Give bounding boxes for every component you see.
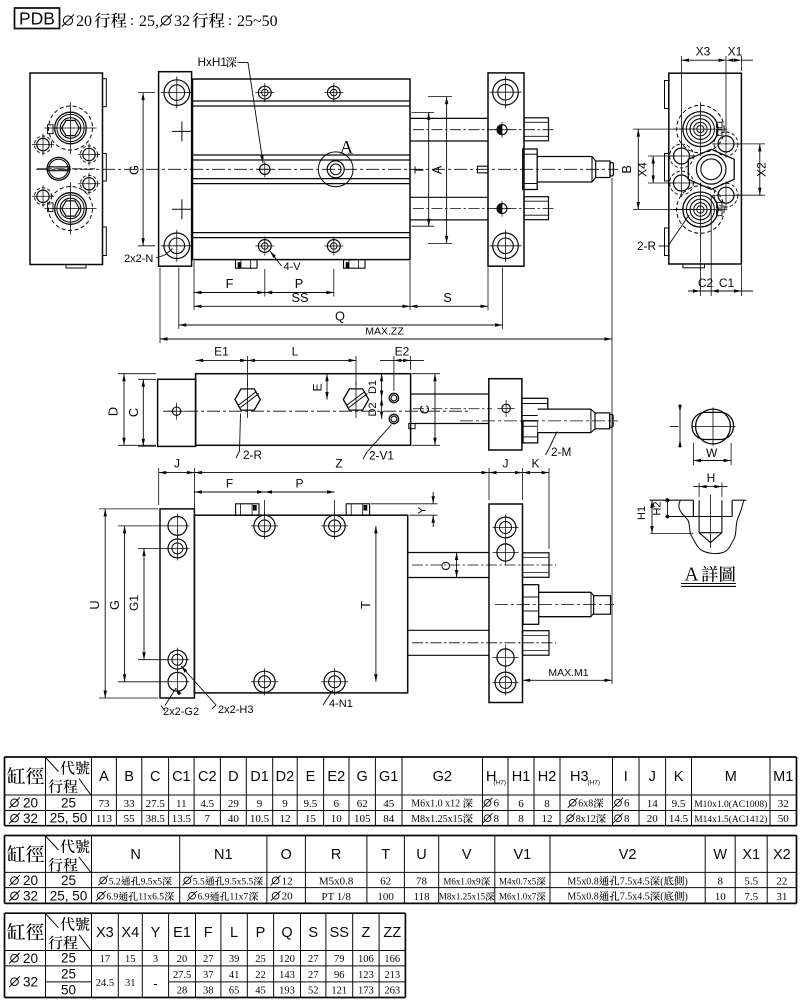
svg-text:4-N1: 4-N1 xyxy=(329,698,353,710)
svg-text:Y: Y xyxy=(151,925,161,941)
svg-text:73: 73 xyxy=(98,798,110,810)
top view rod axis xyxy=(460,420,618,422)
svg-text:HxH1: HxH1 xyxy=(198,55,228,69)
dimension X2 xyxy=(735,143,765,145)
right end view body xyxy=(669,73,742,264)
svg-text:H2: H2 xyxy=(652,501,664,515)
right end view bottom port 2-R xyxy=(683,192,718,227)
right end view top port 2-R xyxy=(683,112,718,147)
dimension MAX.ZZ xyxy=(160,338,612,340)
svg-text:39: 39 xyxy=(229,954,240,965)
svg-text:9.5: 9.5 xyxy=(672,798,686,810)
bottom view rod nut xyxy=(523,585,539,625)
svg-text:C1: C1 xyxy=(719,276,735,290)
svg-text:G: G xyxy=(127,165,142,175)
svg-text:M5x0.8: M5x0.8 xyxy=(567,892,598,903)
svg-text:6: 6 xyxy=(518,798,524,810)
left end view small ports xyxy=(37,138,49,150)
svg-text:213: 213 xyxy=(384,970,400,981)
svg-text:32: 32 xyxy=(174,13,190,30)
svg-text:L: L xyxy=(230,925,238,941)
svg-text:62: 62 xyxy=(380,876,391,888)
svg-text:38.5: 38.5 xyxy=(146,813,166,825)
svg-text:100: 100 xyxy=(377,891,394,903)
dimension B xyxy=(633,128,697,130)
svg-text:H2: H2 xyxy=(538,769,557,785)
svg-text:5.5: 5.5 xyxy=(744,876,758,888)
svg-text:9: 9 xyxy=(257,798,263,810)
svg-text:32: 32 xyxy=(23,889,38,904)
svg-text:31: 31 xyxy=(125,978,136,989)
svg-text:22: 22 xyxy=(776,876,787,888)
bottom view left plate holes xyxy=(168,517,187,536)
piston rod hex nut xyxy=(523,149,538,190)
svg-text:K: K xyxy=(674,769,684,785)
svg-text:13.5: 13.5 xyxy=(172,813,192,825)
svg-text:R: R xyxy=(331,847,341,863)
top view piston rod xyxy=(538,409,591,433)
bottom view rod axis xyxy=(495,604,614,606)
svg-text::: : xyxy=(228,13,232,29)
svg-text:G1: G1 xyxy=(379,769,398,785)
svg-text:123: 123 xyxy=(358,970,374,981)
dimension X3 X1 xyxy=(681,56,683,148)
svg-text:6: 6 xyxy=(334,798,340,810)
svg-text:29: 29 xyxy=(228,798,240,810)
main centerline xyxy=(36,168,618,170)
svg-text:V: V xyxy=(462,847,472,863)
svg-text:8: 8 xyxy=(494,813,500,825)
top view guide rod between body and plate xyxy=(411,393,489,395)
svg-text:12: 12 xyxy=(542,813,553,825)
svg-text:2-V1: 2-V1 xyxy=(369,449,394,463)
svg-text:X4: X4 xyxy=(636,162,650,177)
svg-text:T: T xyxy=(381,847,390,863)
A detail break lines xyxy=(679,500,744,553)
svg-text:8: 8 xyxy=(518,813,524,825)
svg-text:7.5x4.5: 7.5x4.5 xyxy=(620,876,650,887)
svg-text:D: D xyxy=(228,769,238,785)
svg-text:A: A xyxy=(99,769,109,785)
svg-text:PDB: PDB xyxy=(19,9,55,29)
dimension MAX.M1 xyxy=(523,679,612,681)
svg-text:Q: Q xyxy=(335,309,345,324)
svg-text:2-R: 2-R xyxy=(243,448,262,462)
bottom view left plate xyxy=(160,509,194,698)
svg-text:25~50: 25~50 xyxy=(237,13,278,30)
svg-text:166: 166 xyxy=(384,954,400,965)
dimension G front xyxy=(138,92,155,94)
rod tip xyxy=(610,163,613,177)
svg-text:X3: X3 xyxy=(696,45,711,59)
svg-text:45: 45 xyxy=(255,986,266,997)
svg-text:20: 20 xyxy=(282,891,294,903)
title stroke text xyxy=(63,16,72,25)
svg-text:C: C xyxy=(150,769,160,785)
svg-text:C2: C2 xyxy=(198,769,217,785)
dimension H1 xyxy=(650,533,693,535)
svg-text:9: 9 xyxy=(282,798,288,810)
A detail thread hole xyxy=(698,500,700,533)
svg-text:D1: D1 xyxy=(250,769,269,785)
left plate bottom bolt xyxy=(164,233,190,259)
svg-text:-: - xyxy=(153,976,157,991)
svg-text:G: G xyxy=(357,769,368,785)
svg-text:11: 11 xyxy=(176,798,187,810)
svg-text:M5x0.8: M5x0.8 xyxy=(319,876,354,888)
W detail height dim xyxy=(679,404,681,448)
extension lines below front view xyxy=(193,261,195,310)
right end view center hex nut xyxy=(688,149,734,189)
svg-text:F: F xyxy=(226,276,234,291)
svg-text:118: 118 xyxy=(414,891,431,903)
svg-text:2x2-G2: 2x2-G2 xyxy=(163,706,199,718)
svg-text:M8x1.25x15: M8x1.25x15 xyxy=(439,892,486,902)
PDB model label box xyxy=(15,8,60,29)
svg-text:G1: G1 xyxy=(127,595,141,611)
svg-text:U: U xyxy=(87,600,102,609)
svg-text:50: 50 xyxy=(778,813,790,825)
left end view center breather plug xyxy=(47,157,70,180)
svg-text:27: 27 xyxy=(308,970,319,981)
svg-text:193: 193 xyxy=(279,986,295,997)
svg-text:D1: D1 xyxy=(367,380,379,394)
dimension G bottom xyxy=(118,525,166,527)
bottom view body holes 4-N1 xyxy=(254,515,275,536)
svg-text:Z: Z xyxy=(335,457,342,471)
svg-text:M8x1.25x15: M8x1.25x15 xyxy=(411,814,462,825)
svg-text:14: 14 xyxy=(647,798,659,810)
svg-text:14.5: 14.5 xyxy=(669,813,689,825)
svg-text:20: 20 xyxy=(647,813,659,825)
svg-text:M: M xyxy=(725,769,737,785)
svg-text:31: 31 xyxy=(776,891,787,903)
front view cylinder body xyxy=(193,79,411,260)
svg-text:24.5: 24.5 xyxy=(96,978,114,989)
svg-text:Y: Y xyxy=(417,506,429,514)
right plate top bolt xyxy=(493,79,519,105)
rod neck thread xyxy=(596,161,610,178)
svg-text:17: 17 xyxy=(100,954,111,965)
svg-text:2-M: 2-M xyxy=(551,445,571,459)
svg-text:96: 96 xyxy=(334,970,345,981)
svg-text:78: 78 xyxy=(416,876,428,888)
svg-text:8: 8 xyxy=(624,813,630,825)
svg-text:7.5x4.5: 7.5x4.5 xyxy=(620,892,650,903)
svg-text:I: I xyxy=(624,769,628,785)
svg-text:M6x1.0 x12: M6x1.0 x12 xyxy=(411,799,460,810)
W detail rod flats section xyxy=(692,412,734,439)
cushion needle block xyxy=(477,166,488,173)
svg-text:M1: M1 xyxy=(773,769,793,785)
top view V1 ports xyxy=(389,393,398,402)
svg-text:A: A xyxy=(340,138,354,159)
svg-text:O: O xyxy=(439,561,453,570)
top view body xyxy=(196,374,411,446)
svg-text:PT 1/8: PT 1/8 xyxy=(321,891,351,903)
svg-text:C1: C1 xyxy=(172,769,191,785)
dimension C2 C1 xyxy=(699,233,701,296)
dimension E xyxy=(326,374,328,400)
svg-text:N1: N1 xyxy=(214,847,233,863)
svg-text:121: 121 xyxy=(331,986,347,997)
svg-text:E2: E2 xyxy=(327,769,345,785)
svg-text:G2: G2 xyxy=(433,769,452,785)
svg-text:MAX.ZZ: MAX.ZZ xyxy=(365,326,404,338)
svg-text:N: N xyxy=(130,847,140,863)
svg-text:25: 25 xyxy=(61,967,76,982)
svg-text:8: 8 xyxy=(544,798,550,810)
svg-text:X2: X2 xyxy=(773,847,791,863)
svg-text:20: 20 xyxy=(23,873,38,888)
svg-text:2x2-N: 2x2-N xyxy=(124,253,153,265)
left end view bottom hex socket plug xyxy=(55,193,87,225)
svg-text:10: 10 xyxy=(715,891,727,903)
svg-text:45: 45 xyxy=(383,798,395,810)
svg-text:P: P xyxy=(295,476,303,490)
svg-text:27.5: 27.5 xyxy=(173,970,191,981)
svg-text:6x8: 6x8 xyxy=(578,799,593,810)
bottom view guide rods xyxy=(408,552,489,554)
dimension Y xyxy=(371,503,438,505)
piston rod xyxy=(537,156,592,158)
svg-text:V1: V1 xyxy=(514,847,532,863)
dimension Q xyxy=(179,324,503,326)
body bottom screws xyxy=(258,240,271,253)
svg-text:E: E xyxy=(311,383,325,391)
dimension X4 xyxy=(648,155,676,157)
guide rod threaded stubs xyxy=(524,118,549,141)
svg-text:L: L xyxy=(292,344,299,358)
svg-text:J: J xyxy=(174,457,180,471)
svg-text:27: 27 xyxy=(308,954,319,965)
svg-text:ZZ: ZZ xyxy=(383,925,401,941)
dimension D1 D2 xyxy=(381,374,383,419)
svg-text:P: P xyxy=(256,925,266,941)
dimension E1 L E2 xyxy=(247,356,249,386)
HxH1 hole xyxy=(260,164,270,174)
A detail counterbore xyxy=(692,500,694,516)
svg-text:28: 28 xyxy=(177,986,188,997)
bottom view port bosses xyxy=(236,504,259,515)
svg-text:K: K xyxy=(531,457,539,471)
svg-text:25,: 25, xyxy=(139,13,159,30)
svg-text:SS: SS xyxy=(330,925,349,941)
svg-text:M6x1.0x7: M6x1.0x7 xyxy=(499,892,537,902)
svg-text:12: 12 xyxy=(279,813,290,825)
svg-text:65: 65 xyxy=(229,986,240,997)
A detail surface lines xyxy=(650,499,694,501)
left end view edge tabs xyxy=(103,79,107,107)
dimension H2 xyxy=(666,500,668,516)
svg-text:6: 6 xyxy=(624,798,630,810)
svg-text:11x7: 11x7 xyxy=(229,893,248,903)
svg-text:A: A xyxy=(430,165,445,174)
bottom port bosses front xyxy=(236,260,258,269)
svg-text:Q: Q xyxy=(281,925,292,941)
dimension W xyxy=(693,443,695,465)
svg-text:): ) xyxy=(685,892,688,903)
svg-text:Z: Z xyxy=(361,925,370,941)
svg-text:X1: X1 xyxy=(728,45,743,59)
left plate top bolt xyxy=(164,80,190,106)
svg-text:V2: V2 xyxy=(619,847,637,863)
TABLE 2 xyxy=(5,835,797,837)
svg-text:20: 20 xyxy=(23,796,38,811)
svg-text:4.5: 4.5 xyxy=(200,798,214,810)
top view rod lock nut xyxy=(523,421,538,443)
TABLE 1 xyxy=(5,756,797,758)
svg-text:E2: E2 xyxy=(395,344,410,358)
port A with detail circle xyxy=(327,161,344,178)
svg-text:143: 143 xyxy=(279,970,295,981)
svg-text:7.5: 7.5 xyxy=(744,891,758,903)
svg-text:15: 15 xyxy=(305,813,317,825)
svg-text:D: D xyxy=(106,407,121,416)
svg-text:32: 32 xyxy=(778,798,789,810)
svg-text:41: 41 xyxy=(229,970,240,981)
svg-text:20: 20 xyxy=(177,954,188,965)
svg-text:D2: D2 xyxy=(276,769,295,785)
svg-text:27: 27 xyxy=(203,954,214,965)
svg-text:M6x1.0x9: M6x1.0x9 xyxy=(443,876,481,886)
svg-text:32: 32 xyxy=(23,811,38,826)
svg-text:T: T xyxy=(412,166,427,174)
svg-text:W: W xyxy=(713,847,727,863)
svg-text:6.9: 6.9 xyxy=(198,893,210,903)
svg-text:120: 120 xyxy=(279,954,295,965)
svg-text:27.5: 27.5 xyxy=(146,798,166,810)
svg-text::: : xyxy=(130,13,134,29)
svg-text:25: 25 xyxy=(61,951,76,966)
svg-text:(H7): (H7) xyxy=(493,780,506,787)
svg-text:25: 25 xyxy=(61,873,76,888)
svg-text:20: 20 xyxy=(23,951,38,966)
top view right plate xyxy=(489,379,522,450)
svg-text:5.5: 5.5 xyxy=(193,877,205,887)
right end view edge tabs xyxy=(665,81,669,109)
guide rods between body and plate xyxy=(410,117,488,119)
svg-text:52: 52 xyxy=(308,986,319,997)
dimension C right xyxy=(412,373,440,375)
front view: left end cap side view xyxy=(30,73,103,265)
bottom view right plate xyxy=(489,504,523,703)
svg-text:C: C xyxy=(417,405,432,414)
top view hex plug 1 (2-R) xyxy=(235,389,260,410)
svg-text:4-V: 4-V xyxy=(284,261,302,273)
right plate bottom bolt xyxy=(493,233,519,259)
svg-text:62: 62 xyxy=(357,798,368,810)
svg-text:E1: E1 xyxy=(173,925,191,941)
dimension C left xyxy=(138,378,156,380)
svg-text:10: 10 xyxy=(331,813,343,825)
svg-text:5.2: 5.2 xyxy=(109,877,121,887)
TABLE 3 xyxy=(5,912,406,914)
svg-text:D2: D2 xyxy=(367,402,379,416)
svg-text:M4x0.7x5: M4x0.7x5 xyxy=(499,876,537,886)
dimension SS xyxy=(194,305,410,307)
svg-text:E1: E1 xyxy=(214,344,229,358)
svg-text:MAX.M1: MAX.M1 xyxy=(548,667,588,679)
svg-text:M5x0.8: M5x0.8 xyxy=(567,876,598,887)
svg-text:55: 55 xyxy=(124,813,136,825)
svg-text:C2: C2 xyxy=(698,276,714,290)
dimension D left xyxy=(118,373,156,375)
svg-text:25, 50: 25, 50 xyxy=(50,888,88,903)
svg-text:50: 50 xyxy=(61,982,76,997)
svg-text:W: W xyxy=(706,446,718,460)
svg-text:33: 33 xyxy=(124,798,136,810)
svg-text:F: F xyxy=(204,925,213,941)
svg-text:M10x1.0(AC1008): M10x1.0(AC1008) xyxy=(694,799,767,810)
svg-text:113: 113 xyxy=(96,813,113,825)
svg-text:32: 32 xyxy=(23,974,38,989)
svg-text:X4: X4 xyxy=(121,925,139,941)
svg-text:173: 173 xyxy=(358,986,374,997)
svg-text:6.9: 6.9 xyxy=(106,893,118,903)
svg-text:B: B xyxy=(619,165,634,174)
front view right moving plate xyxy=(488,73,524,266)
bottom view piston rod xyxy=(539,591,591,593)
svg-text:X1: X1 xyxy=(742,847,760,863)
svg-text:3: 3 xyxy=(153,954,158,965)
left plate cross marks xyxy=(172,130,192,132)
dimension O xyxy=(456,553,458,578)
right end view side ports xyxy=(674,148,690,164)
svg-text:263: 263 xyxy=(384,986,400,997)
svg-text:22: 22 xyxy=(255,970,266,981)
svg-text:84: 84 xyxy=(383,813,395,825)
svg-text:8: 8 xyxy=(717,876,723,888)
svg-text:H: H xyxy=(707,471,716,485)
svg-text:P: P xyxy=(295,276,304,291)
svg-text:37: 37 xyxy=(203,970,214,981)
svg-text:O: O xyxy=(281,847,292,863)
dimension S xyxy=(410,305,488,307)
svg-text:G: G xyxy=(107,600,122,610)
svg-text:7: 7 xyxy=(205,813,211,825)
svg-text:20: 20 xyxy=(76,13,92,30)
svg-text:11x6.5: 11x6.5 xyxy=(138,893,164,903)
svg-text:H3: H3 xyxy=(570,769,589,785)
svg-text:9.5x5: 9.5x5 xyxy=(141,877,163,887)
svg-text:): ) xyxy=(685,876,688,887)
top view guide bushing hex xyxy=(522,398,548,421)
svg-text:X3: X3 xyxy=(96,925,114,941)
svg-text:J: J xyxy=(503,457,509,471)
svg-text:A: A xyxy=(684,565,698,586)
svg-text:12: 12 xyxy=(282,875,293,887)
svg-text:J: J xyxy=(649,769,656,785)
left end view top hex socket plug xyxy=(55,112,87,144)
svg-text:F: F xyxy=(226,476,233,490)
body top screws 4-V xyxy=(258,86,271,99)
svg-text:25: 25 xyxy=(255,954,266,965)
svg-text:H1: H1 xyxy=(512,769,531,785)
top view left plate xyxy=(158,379,196,446)
svg-text:2-R: 2-R xyxy=(637,239,656,253)
svg-text:9.5x5.5: 9.5x5.5 xyxy=(225,877,254,887)
svg-text:38: 38 xyxy=(203,986,214,997)
svg-text:S: S xyxy=(308,925,318,941)
svg-text:15: 15 xyxy=(125,954,136,965)
dimension T bottom xyxy=(375,526,377,682)
svg-text:M14x1.5(AC1412): M14x1.5(AC1412) xyxy=(694,814,767,825)
top view centerline xyxy=(163,410,470,412)
svg-text:C: C xyxy=(126,408,141,417)
svg-text:8x12: 8x12 xyxy=(576,814,596,825)
svg-text:6: 6 xyxy=(494,798,500,810)
